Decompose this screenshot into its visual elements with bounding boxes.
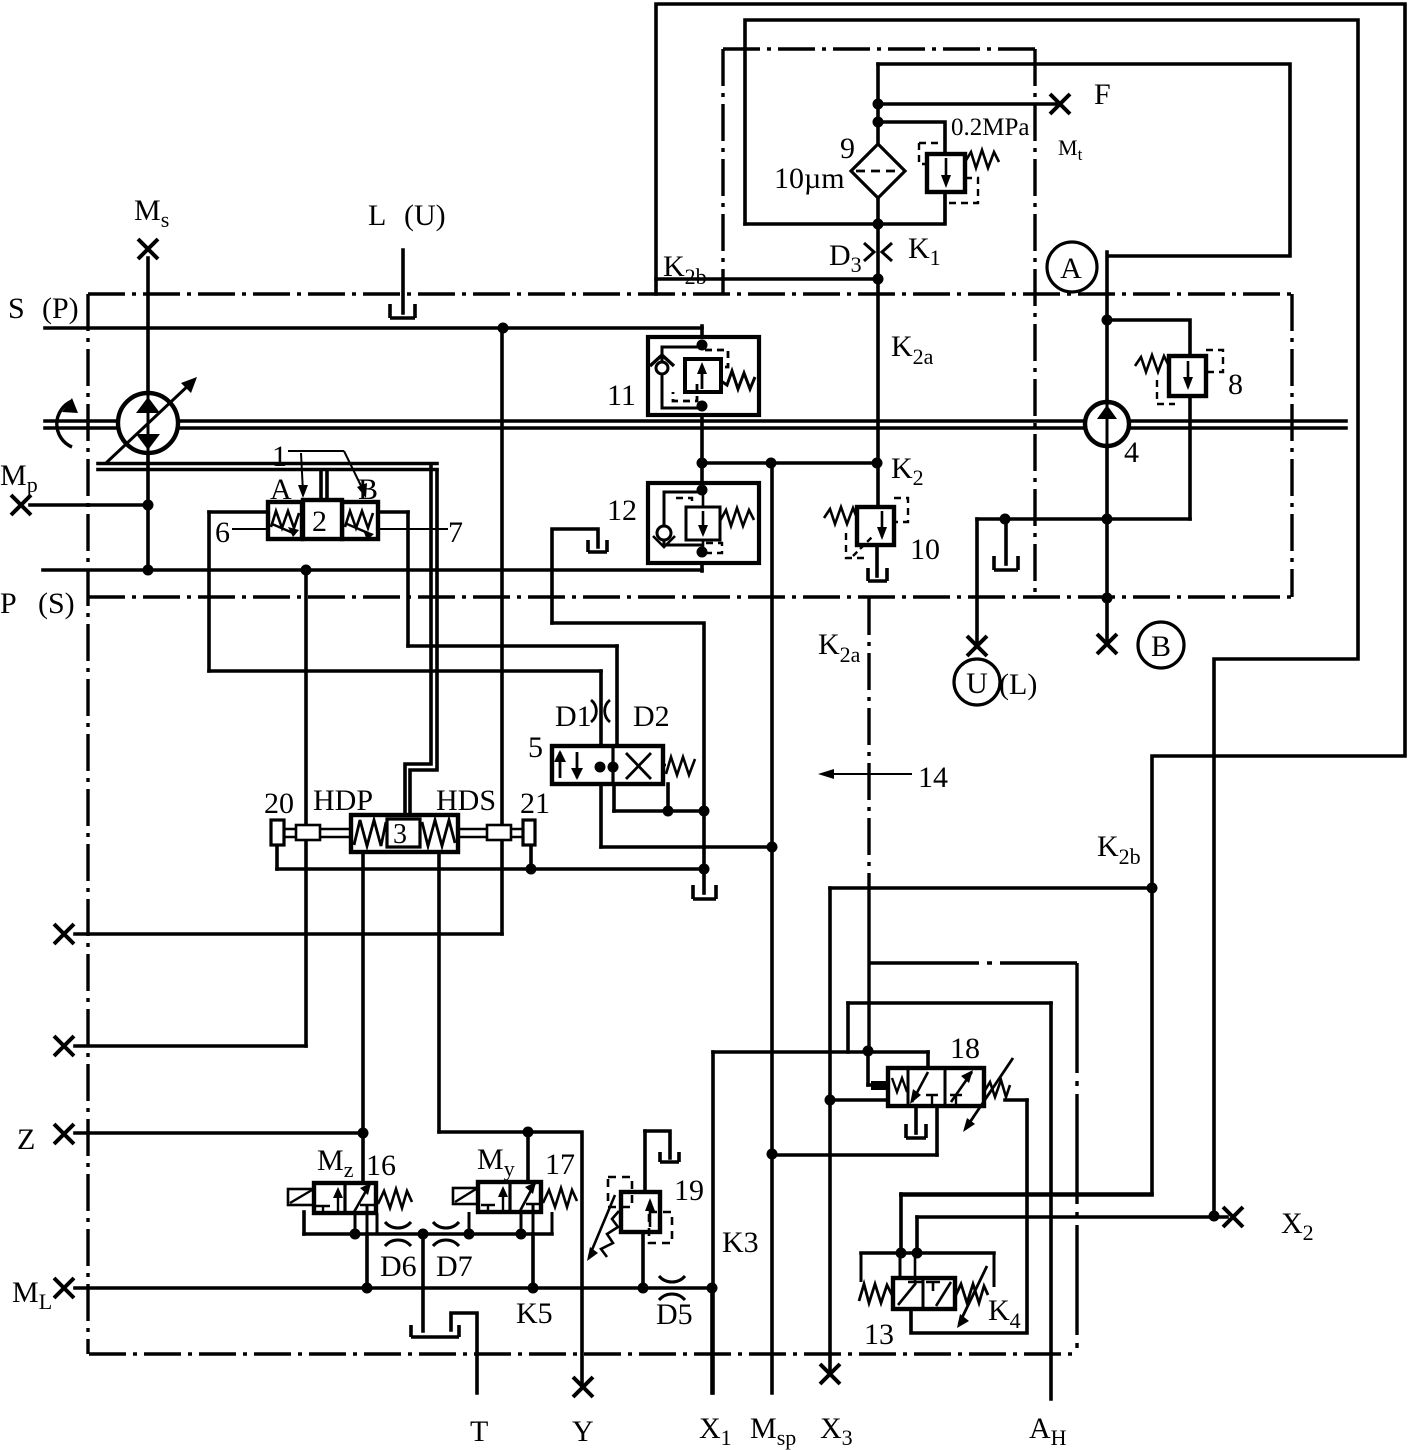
svg-text:21: 21: [520, 787, 550, 820]
svg-text:Z: Z: [17, 1123, 35, 1156]
svg-text:(P): (P): [42, 292, 79, 325]
svg-text:0.2MPa: 0.2MPa: [951, 114, 1029, 141]
svg-text:8: 8: [1228, 368, 1243, 401]
svg-text:P: P: [0, 587, 17, 620]
svg-text:19: 19: [674, 1174, 704, 1207]
svg-text:4: 4: [1124, 436, 1139, 469]
svg-text:L: L: [368, 199, 386, 232]
svg-text:1: 1: [272, 440, 287, 473]
svg-text:Y: Y: [572, 1415, 594, 1448]
svg-text:3: 3: [393, 819, 407, 850]
svg-text:18: 18: [950, 1032, 980, 1065]
svg-text:(S): (S): [38, 587, 75, 620]
svg-text:D1: D1: [555, 700, 592, 733]
svg-text:D2: D2: [633, 700, 670, 733]
svg-text:B: B: [358, 473, 378, 506]
svg-text:9: 9: [840, 132, 855, 165]
svg-text:16: 16: [366, 1149, 396, 1182]
svg-text:S: S: [8, 292, 25, 325]
svg-text:13: 13: [864, 1318, 894, 1351]
svg-text:6: 6: [215, 516, 230, 549]
svg-text:K3: K3: [722, 1226, 759, 1259]
svg-text:5: 5: [528, 731, 543, 764]
svg-text:U: U: [966, 667, 988, 700]
svg-text:A: A: [1060, 252, 1082, 285]
svg-text:10µm: 10µm: [774, 162, 845, 195]
svg-text:D6: D6: [380, 1250, 417, 1283]
svg-text:K5: K5: [516, 1297, 553, 1330]
svg-text:11: 11: [607, 379, 636, 412]
svg-text:HDS: HDS: [436, 784, 496, 817]
svg-text:2: 2: [312, 505, 327, 538]
svg-text:D7: D7: [436, 1250, 473, 1283]
svg-text:(L): (L): [999, 668, 1037, 701]
svg-text:(U): (U): [404, 199, 446, 232]
svg-text:12: 12: [607, 494, 637, 527]
svg-text:HDP: HDP: [313, 784, 373, 817]
svg-text:T: T: [470, 1415, 488, 1448]
svg-text:F: F: [1094, 78, 1111, 111]
svg-text:D5: D5: [656, 1298, 693, 1331]
svg-text:17: 17: [545, 1148, 575, 1181]
svg-text:20: 20: [264, 787, 294, 820]
svg-text:14: 14: [918, 761, 948, 794]
svg-text:7: 7: [448, 516, 463, 549]
svg-text:B: B: [1151, 630, 1171, 663]
svg-text:A: A: [270, 473, 292, 506]
svg-text:10: 10: [910, 533, 940, 566]
